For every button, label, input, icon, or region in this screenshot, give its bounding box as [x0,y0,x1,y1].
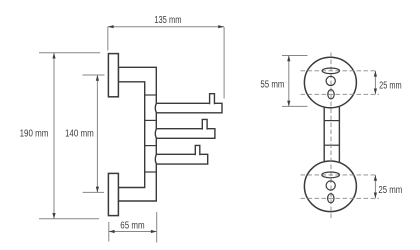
dim 140mm arrow top [96,75,99,81]
dim 65mm dimension line [109,231,157,233]
post joint line 1 [145,94,157,96]
connector bar left edge [323,103,325,166]
dim 65mm extension line left [108,222,110,242]
dim 25mm top arrow up [374,71,377,77]
bar joint line 2 [324,144,339,146]
top keyhole [328,90,334,99]
svg-text:65 mm: 65 mm [120,220,144,231]
dim 25mm bottom dimension line [374,175,376,198]
hook peg 1 [210,94,215,105]
bottom slot [322,172,340,178]
hook arm 3 [155,154,207,164]
svg-text:190 mm: 190 mm [20,129,49,140]
dim 25mm bottom arrow up [374,175,377,181]
dim 55mm dimension line [288,56,290,107]
dim 65mm arrow right [151,230,157,233]
dim 55mm arrow top [287,56,290,62]
dim 25mm top dimension line [374,71,376,95]
dim 190mm extension line top [39,52,100,54]
dim 55mm arrow bottom [287,101,290,107]
vertical center line [330,53,332,219]
dim 65mm arrow left [109,230,115,233]
center line bottom slot [301,174,378,176]
dim 25mm bottom arrow down [374,193,377,199]
post joint line 2 [145,119,157,121]
dim 55mm extension line top [282,55,308,57]
dim 135mm extension line right [223,27,225,99]
svg-text:25 mm: 25 mm [379,81,402,92]
dim 135mm arrow right [218,25,224,28]
dim 135mm dimension line [108,26,224,28]
bottom flange circle [304,161,356,212]
center line bottom hole [301,197,380,199]
dim 140mm arrow bottom [96,187,99,193]
center line top hole [301,93,380,95]
dim 65mm extension line right [156,212,158,243]
hook peg 2 [202,119,207,129]
center line top slot [301,70,378,72]
svg-text:55 mm: 55 mm [260,79,284,90]
bar joint line 1 [324,120,339,122]
dim 140mm dimension line [96,75,98,192]
bottom keyhole [328,194,334,203]
hook arm 2 [155,129,215,139]
dim 55mm extension line bottom [282,105,308,107]
hook peg 3 [195,145,200,155]
svg-text:135 mm: 135 mm [154,15,181,26]
dim 135mm extension line left [107,27,109,51]
dim 140mm extension line bottom [83,191,104,193]
svg-text:25 mm: 25 mm [378,185,402,196]
dim 190mm extension line bottom [39,218,99,220]
dim 135mm arrow left [108,25,114,28]
top wall plate [108,54,118,97]
dim 190mm dimension line [53,53,55,219]
dim 190mm arrow bottom [52,213,55,219]
dim 190mm arrow top [52,53,55,59]
top flange circle [304,57,356,108]
top slot [322,68,339,74]
bottom wall plate [108,173,118,215]
dim 25mm top arrow down [374,89,377,95]
bracket body: top arm, post, bottom arm [118,67,156,201]
dim 140mm extension line top [82,74,104,76]
post joint line 4 [145,171,157,173]
top screw hole [326,76,335,85]
post joint line 3 [145,145,157,147]
hook arm 1 [155,103,222,113]
connector bar right edge [338,103,340,166]
svg-text:140 mm: 140 mm [65,129,94,140]
bottom screw hole [326,181,335,190]
